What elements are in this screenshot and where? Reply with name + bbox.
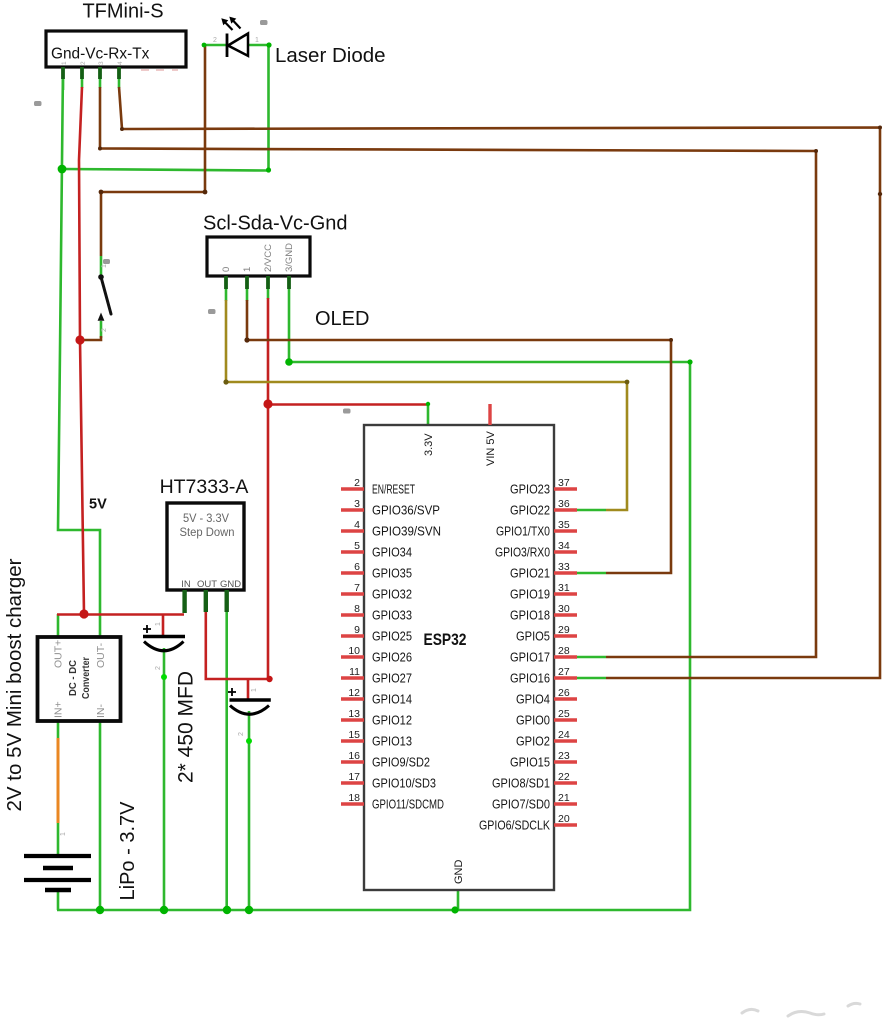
svg-text:2V to 5V Mini boost charger: 2V to 5V Mini boost charger [3,558,26,811]
svg-text:HT7333-A: HT7333-A [160,476,249,498]
svg-text:2: 2 [80,61,87,65]
svg-text:35: 35 [558,519,570,531]
svg-text:1: 1 [155,622,162,626]
svg-text:2: 2 [238,732,245,736]
svg-text:GPIO21: GPIO21 [510,567,550,581]
svg-text:28: 28 [558,645,570,657]
svg-text:1: 1 [255,37,259,44]
svg-text:2: 2 [155,666,162,670]
svg-text:9: 9 [354,624,360,636]
svg-text:13: 13 [348,708,360,720]
svg-text:2/VCC: 2/VCC [263,244,274,272]
svg-text:DC - DC: DC - DC [67,660,79,696]
svg-text:18: 18 [348,792,360,804]
svg-text:OUT-: OUT- [95,642,107,668]
svg-text:GPIO34: GPIO34 [372,546,412,560]
svg-text:2: 2 [354,477,360,489]
svg-text:3: 3 [98,61,105,65]
svg-text:GPIO17: GPIO17 [510,651,550,665]
svg-text:8: 8 [354,603,360,615]
svg-text:EN/RESET: EN/RESET [372,483,415,497]
svg-text:GPIO2: GPIO2 [516,735,550,749]
svg-text:GPIO8/SD1: GPIO8/SD1 [492,777,550,791]
svg-text:23: 23 [558,750,570,762]
svg-text:GPIO27: GPIO27 [372,672,412,686]
svg-text:24: 24 [558,729,570,741]
svg-text:GPIO10/SD3: GPIO10/SD3 [372,777,436,791]
svg-text:GPIO1/TX0: GPIO1/TX0 [496,525,550,539]
svg-text:GPIO39/SVN: GPIO39/SVN [372,525,441,539]
svg-text:37: 37 [558,477,570,489]
svg-text:GPIO35: GPIO35 [372,567,412,581]
svg-text:GPIO0: GPIO0 [516,714,550,728]
svg-text:TFMini-S: TFMini-S [82,1,163,23]
svg-text:IN-: IN- [95,704,107,719]
svg-text:VIN 5V: VIN 5V [485,430,497,466]
svg-text:GPIO3/RX0: GPIO3/RX0 [495,546,550,560]
svg-text:OUT: OUT [197,579,217,590]
svg-text:Gnd-Vc-Rx-Tx: Gnd-Vc-Rx-Tx [51,46,150,63]
svg-text:OUT+: OUT+ [53,640,65,668]
svg-text:1: 1 [251,688,258,692]
svg-text:Scl-Sda-Vc-Gnd: Scl-Sda-Vc-Gnd [203,213,348,235]
svg-text:GPIO11/SDCMD: GPIO11/SDCMD [372,798,444,812]
svg-text:11: 11 [349,666,360,678]
svg-text:3.3V: 3.3V [423,433,435,456]
svg-text:3/GND: 3/GND [284,243,295,272]
svg-text:2: 2 [213,37,217,44]
svg-text:GPIO7/SD0: GPIO7/SD0 [492,798,550,812]
svg-text:29: 29 [558,624,570,636]
svg-text:GPIO33: GPIO33 [372,609,412,623]
svg-text:IN+: IN+ [53,701,65,718]
svg-text:GPIO15: GPIO15 [510,756,550,770]
svg-text:4: 4 [117,61,124,65]
svg-text:Converter: Converter [80,657,92,699]
svg-text:26: 26 [558,687,570,699]
svg-text:GPIO25: GPIO25 [372,630,412,644]
svg-text:27: 27 [558,666,570,678]
svg-text:GPIO19: GPIO19 [510,588,550,602]
svg-text:GPIO14: GPIO14 [372,693,412,707]
svg-text:GPIO4: GPIO4 [516,693,550,707]
svg-text:33: 33 [558,561,570,573]
svg-text:GPIO36/SVP: GPIO36/SVP [372,504,440,518]
svg-text:LiPo - 3.7V: LiPo - 3.7V [117,801,139,901]
svg-text:6: 6 [354,561,360,573]
svg-text:GND: GND [220,579,241,590]
svg-text:GPIO26: GPIO26 [372,651,412,665]
svg-text:2* 450 MFD: 2* 450 MFD [175,671,198,783]
svg-text:16: 16 [348,750,360,762]
svg-text:7: 7 [354,582,360,594]
svg-text:25: 25 [558,708,570,720]
svg-text:5: 5 [354,540,360,552]
svg-text:GPIO16: GPIO16 [510,672,550,686]
svg-text:Step Down: Step Down [180,527,235,539]
svg-text:GPIO6/SDCLK: GPIO6/SDCLK [479,819,551,833]
svg-text:GPIO13: GPIO13 [372,735,412,749]
svg-text:OLED: OLED [315,308,369,330]
svg-text:21: 21 [558,792,570,804]
svg-text:GPIO32: GPIO32 [372,588,412,602]
svg-text:12: 12 [348,687,360,699]
svg-text:Laser Diode: Laser Diode [275,44,386,67]
svg-text:1: 1 [61,61,68,65]
svg-text:4: 4 [354,519,360,531]
svg-text:1: 1 [101,264,108,268]
svg-text:34: 34 [558,540,570,552]
svg-text:GND: GND [453,860,465,885]
svg-text:17: 17 [348,771,360,783]
svg-text:10: 10 [348,645,360,657]
svg-text:15: 15 [348,729,360,741]
svg-text:5V - 3.3V: 5V - 3.3V [183,513,229,525]
svg-text:1: 1 [60,832,67,836]
svg-text:20: 20 [558,813,570,825]
svg-text:5V: 5V [89,497,107,513]
svg-text:GPIO5: GPIO5 [516,630,550,644]
svg-text:31: 31 [558,582,570,594]
svg-text:3: 3 [354,498,360,510]
svg-text:22: 22 [558,771,570,783]
svg-text:GPIO23: GPIO23 [510,483,550,497]
svg-text:30: 30 [558,603,570,615]
svg-text:GPIO18: GPIO18 [510,609,550,623]
svg-text:GPIO12: GPIO12 [372,714,412,728]
svg-text:2: 2 [101,328,108,332]
svg-text:36: 36 [558,498,570,510]
svg-text:GPIO9/SD2: GPIO9/SD2 [372,756,430,770]
svg-text:GPIO22: GPIO22 [510,504,550,518]
svg-text:1: 1 [242,267,253,272]
svg-text:IN: IN [181,579,191,590]
svg-text:0: 0 [221,267,232,272]
svg-text:ESP32: ESP32 [424,630,467,649]
